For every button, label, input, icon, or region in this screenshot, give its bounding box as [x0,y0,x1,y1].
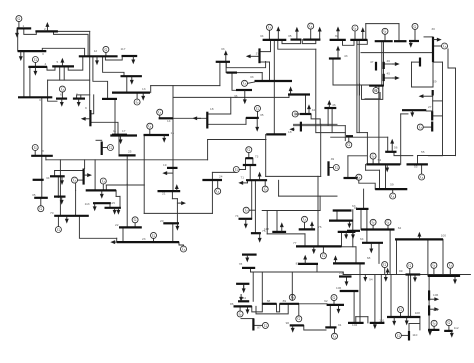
wire W177 [247,180,249,183]
svg-text:G: G [256,106,259,111]
svg-text:G: G [17,16,20,21]
bus B56 [356,208,369,210]
svg-text:G: G [109,145,112,150]
wire W96 [232,72,262,74]
wire W145 [432,96,434,112]
svg-text:35: 35 [288,34,292,38]
bus VB5 (vertical) [258,48,260,63]
bus B80 [327,304,344,306]
svg-text:G: G [152,233,155,238]
svg-text:G: G [372,220,375,225]
svg-text:102: 102 [352,323,357,327]
bus B6 [79,55,118,57]
wire W190 [341,232,343,247]
wire W192 [251,271,344,273]
load arrow A31 [296,31,298,40]
svg-text:21: 21 [162,192,166,196]
bus B87 [370,322,385,324]
generator G39 [262,322,268,328]
svg-text:G: G [408,263,411,268]
wire W133 [294,123,338,125]
load arrow A38 [410,41,412,44]
svg-text:G: G [420,174,423,179]
wire W114 [383,41,385,85]
wire W214 [359,263,361,323]
load arrow A68 [387,271,389,274]
wire W163 [379,170,381,189]
wire W70 [57,176,59,197]
wire W233 [401,334,409,336]
svg-text:100: 100 [441,234,446,238]
load arrow A7 [132,56,134,61]
wire W68 [55,170,84,172]
svg-text:46: 46 [387,59,391,63]
svg-text:101: 101 [379,319,384,323]
svg-text:G: G [433,321,436,326]
bus B57 [361,228,395,230]
svg-text:14: 14 [167,119,171,123]
wire W143 [418,155,456,157]
bus B26 [105,207,121,209]
load arrow A16 [166,172,173,174]
svg-text:G: G [443,43,446,48]
wire W212 [353,291,355,323]
wire W217 [433,268,435,276]
wire W8 [34,63,36,67]
bus B70 [338,231,356,233]
wire W185 [266,211,268,234]
wire W6 [17,28,19,51]
load arrow A12 [120,136,122,141]
bus B63 [251,232,261,234]
bus B94 [246,157,253,159]
svg-text:42: 42 [312,108,316,112]
wire W104 [357,40,367,44]
svg-text:96: 96 [354,206,358,210]
load arrow A48 [422,95,432,97]
wire W32 [90,122,118,135]
bus B47 [369,84,384,86]
svg-text:27: 27 [428,105,432,109]
load arrow A73 [374,323,376,326]
generator G51 [255,105,261,111]
wire W128 [366,133,368,165]
wire W224 [367,317,369,323]
bus B2 [35,30,58,32]
wire W147 [426,110,432,112]
svg-text:113: 113 [85,202,90,206]
bus B61 [266,133,286,135]
svg-text:77: 77 [293,241,297,245]
svg-text:90: 90 [286,321,290,325]
svg-text:17: 17 [122,129,126,133]
bus B3 [18,50,47,52]
bus B23 [163,222,179,224]
wire W222 [356,316,368,318]
bus B73 [298,263,318,265]
bus B95 [243,164,256,166]
load arrow A55 [311,225,313,230]
generator G53 [333,165,339,171]
svg-text:G: G [247,147,250,152]
bus B39 [236,89,252,91]
generator G16 [266,24,272,30]
wire W251 [342,246,357,248]
wire W57 [171,191,173,199]
generator G42 [332,333,338,339]
bus B11 [73,97,85,99]
generator G17 [308,23,314,29]
load arrow A56 [281,226,283,232]
generator G15 [72,177,78,183]
svg-text:G: G [357,175,360,180]
generator G23 [373,88,379,94]
wire W130 [384,77,395,79]
wire W226 [410,275,412,318]
bus B27 [33,179,44,181]
load arrow A39 [433,39,438,41]
load arrow A45 [328,104,330,108]
wire W10 [68,56,83,70]
bus B20 [216,61,230,63]
svg-text:G: G [347,142,350,147]
wire W25 [80,95,82,99]
wire W36 [118,135,120,156]
svg-text:G: G [294,111,297,116]
generator G48 [431,320,437,326]
wire W49 [173,96,236,98]
bus B67 [296,245,342,247]
bus B85 [428,275,460,277]
wire W244 [320,124,322,176]
svg-text:G: G [309,24,312,29]
wire W149 [423,126,432,128]
wire W161 [392,189,394,193]
load arrow A21 [114,241,117,243]
bus VB7 (vertical) [419,58,421,67]
wire W39 [105,185,107,190]
generator G18 [242,80,248,86]
wire W5 [89,31,91,110]
svg-text:11: 11 [113,129,116,133]
generator G10 [132,217,138,223]
wire W258 [239,169,245,171]
wire W189 [336,211,338,221]
wire W142 [394,152,413,156]
bus B78 [280,303,299,305]
wire W90 [315,49,317,132]
wire W227 [400,313,402,317]
svg-text:55: 55 [414,165,418,169]
bus VB4 (vertical) [82,169,84,185]
bus VB9 (vertical) [383,62,385,69]
bus B84 [406,273,421,275]
wire W154 [379,93,381,99]
svg-text:92: 92 [324,299,328,303]
wire W234 [396,239,398,274]
wire W169 [372,225,374,229]
svg-text:108: 108 [415,311,420,315]
wire W13 [48,79,90,81]
generator G13 [38,206,44,212]
wire W135 [327,108,329,125]
load arrow A27 [84,174,89,176]
load arrow A66 [338,305,340,310]
load arrow A1 [16,28,18,34]
load arrow A81 [256,118,258,128]
load arrow A74 [406,317,408,322]
svg-text:G: G [291,295,294,300]
wire W240 [257,111,259,118]
generator G52 [100,178,106,184]
wire W95 [225,62,227,73]
bus B54 [407,163,428,165]
wire W248 [347,156,349,178]
load arrow A2 [46,26,48,32]
bus B88 [387,316,420,318]
wire W43 [149,129,151,135]
svg-text:G: G [34,145,37,150]
wire W23 [61,92,63,98]
bus B22 [158,190,181,192]
wire W11 [59,66,61,80]
wire W157 [372,159,374,164]
svg-text:33: 33 [221,47,225,51]
bus VB13 (vertical) [431,112,433,121]
load arrow A10 [78,99,80,103]
wire W86 [310,29,312,39]
wire W199 [291,294,293,300]
load arrow A17 [196,117,201,119]
bus B64 [246,179,267,181]
wire W211 [334,327,336,333]
bus B44 [394,40,407,42]
svg-text:G: G [39,206,42,211]
wire W1 [18,22,20,29]
bus B10 [56,97,67,99]
load arrow A62 [243,284,245,290]
bus B15 [112,134,127,136]
load arrow A13 [142,93,144,97]
wire W264 [116,238,118,242]
svg-text:30: 30 [431,27,435,31]
wire W238 [428,300,430,305]
bus B82 [339,275,352,277]
load arrow A5 [61,62,63,67]
wire W178 [264,180,266,186]
bus VB17 (vertical) [428,290,430,300]
wire W16 [105,56,122,60]
generator G37 [237,311,243,317]
bus B72 [242,267,255,269]
wire W174 [249,209,255,211]
generator G25 [346,142,352,148]
bus B53 [366,163,400,165]
wire W235 [427,239,429,276]
wire W67 [179,242,184,246]
generator G30 [390,193,396,199]
wire W218 [449,268,451,276]
wire W136 [331,108,333,133]
load arrow A29 [94,203,96,207]
load arrow A8 [131,76,133,81]
wire W134 [294,125,346,127]
wire W41 [136,93,138,99]
wire W237 [428,276,430,291]
svg-text:47: 47 [370,60,374,64]
bus B46 [329,57,341,59]
wire W46 [219,62,221,86]
wire W53 [207,123,246,125]
bus B55 [375,188,407,190]
load arrow A25 [61,197,63,201]
wire W83 [75,183,77,190]
svg-text:G: G [414,24,417,29]
wire W159 [378,86,380,164]
svg-text:G: G [333,295,336,300]
svg-text:43: 43 [344,54,348,58]
wire W196 [239,306,241,311]
wire W60 [177,202,180,204]
wire W97 [232,73,236,91]
svg-text:2: 2 [44,27,46,31]
load arrow A83 [259,175,261,180]
svg-text:15: 15 [171,131,175,135]
bus B36 [303,38,320,40]
bus B77 [262,303,276,305]
load arrow A9 [61,99,63,103]
svg-text:25: 25 [128,150,132,154]
load arrow A77 [429,330,431,332]
wire W87 [282,40,301,44]
wire W209 [333,301,335,305]
svg-text:33: 33 [250,75,254,79]
svg-text:34: 34 [260,34,264,38]
wire W168 [366,209,368,230]
bus B21 [167,167,178,169]
svg-text:G: G [134,217,137,222]
bus B79 [290,324,304,326]
wire W255 [248,153,250,159]
bus B19 [144,134,170,136]
bus B29 [34,197,48,199]
svg-text:24: 24 [219,175,223,179]
svg-text:1: 1 [23,24,25,28]
wire W73 [59,197,61,216]
generator G4 [59,86,65,92]
load arrow A46 [391,143,393,152]
wire W232 [408,324,410,332]
bus B38 [255,80,293,82]
wire W186 [267,233,305,235]
load arrow A67 [346,277,348,283]
load arrow A47 [411,110,413,113]
bus B48 [300,113,311,115]
wire W180 [278,180,280,196]
wire W125 [356,40,358,133]
wire W256 [245,158,247,169]
load arrow A22 [114,208,116,211]
svg-text:73: 73 [255,154,259,158]
generator G54 [246,147,252,153]
bus B58 [347,230,360,232]
wire W115 [433,61,443,63]
svg-text:70: 70 [50,211,54,215]
wire W26 [77,94,90,96]
svg-text:G: G [335,165,338,170]
wire W78 [94,160,96,191]
wire W55 [208,139,237,141]
wire W122 [333,84,369,86]
wire W195 [243,284,245,289]
svg-text:G: G [182,246,185,251]
wire W183 [319,196,321,210]
svg-text:88: 88 [267,299,271,303]
svg-text:G: G [391,193,394,198]
load arrow A63 [240,294,242,298]
wire W44 [150,86,152,93]
svg-text:55: 55 [421,150,425,154]
bus B40 [288,93,310,95]
svg-text:G: G [322,253,325,258]
bus VB11 (vertical) [300,122,302,132]
wire W29 [45,156,47,160]
wire W64 [134,223,136,228]
wire W54 [207,140,209,160]
wire W37 [126,155,128,184]
wire W126 [358,40,360,133]
generator G45 [431,262,437,268]
svg-text:8: 8 [42,149,44,153]
svg-text:G: G [136,99,139,104]
wire W40 [143,135,145,185]
wire W152 [400,114,402,164]
svg-text:23: 23 [142,237,146,241]
wire W210 [329,305,331,328]
generator G43 [382,262,388,268]
load arrow A36 [337,30,339,40]
wire W187 [304,234,306,247]
load arrow A41 [392,63,396,65]
load arrow A60 [246,255,248,259]
svg-text:62: 62 [398,226,402,230]
load arrow A65 [292,325,294,329]
svg-text:18: 18 [288,130,292,134]
bus VB16 (vertical) [408,331,410,341]
bus B33 [93,202,111,204]
load arrow A64 [247,306,249,310]
generator G8 [157,109,163,115]
wire W219 [374,275,376,323]
svg-text:36: 36 [234,94,238,98]
wire W220 [380,275,382,323]
svg-text:105: 105 [339,271,344,275]
svg-text:84: 84 [243,296,247,300]
wire W132 [311,114,320,124]
load arrow A15 [225,54,227,62]
wire W100 [288,95,290,98]
svg-text:78: 78 [239,262,243,266]
svg-text:74: 74 [235,214,239,218]
wire W27 [41,97,43,198]
wire W205 [253,324,262,326]
wire W246 [317,176,319,246]
svg-text:G: G [447,320,450,325]
bus B91 [395,238,443,240]
wire W123 [375,86,377,88]
svg-text:G: G [102,178,105,183]
svg-text:12: 12 [94,49,98,53]
